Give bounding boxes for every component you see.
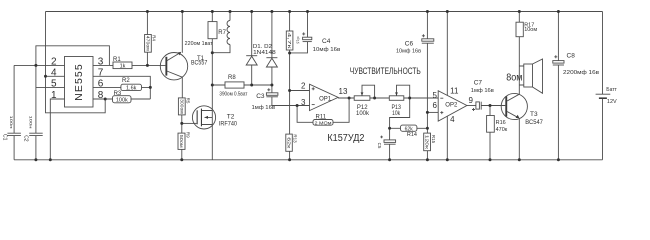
svg-text:10мф 16в: 10мф 16в	[396, 48, 421, 54]
svg-text:C3: C3	[256, 93, 265, 100]
svg-text:390ом 0.5ват: 390ом 0.5ват	[219, 91, 248, 97]
svg-text:IRF740: IRF740	[219, 121, 238, 128]
svg-text:6: 6	[433, 101, 438, 110]
svg-text:6: 6	[98, 79, 104, 90]
svg-text:1: 1	[51, 90, 57, 101]
svg-text:1б: 1б	[296, 40, 300, 44]
svg-text:T3: T3	[530, 111, 538, 118]
svg-text:3: 3	[301, 98, 306, 107]
svg-text:R15: R15	[431, 135, 436, 144]
svg-text:1N4148: 1N4148	[253, 50, 276, 56]
svg-text:100k: 100k	[116, 97, 128, 103]
svg-text:R13: R13	[292, 134, 297, 143]
svg-text:4,7к: 4,7к	[287, 33, 292, 49]
svg-text:4: 4	[450, 115, 455, 124]
svg-text:12V: 12V	[607, 99, 617, 105]
svg-text:R8: R8	[228, 75, 236, 81]
svg-text:OP2: OP2	[445, 103, 458, 109]
svg-text:R2: R2	[122, 78, 130, 84]
svg-text:К157УД2: К157УД2	[327, 133, 364, 144]
svg-text:Батт: Батт	[606, 87, 617, 93]
svg-text:С5: С5	[377, 143, 382, 149]
svg-text:62к: 62к	[287, 137, 292, 148]
svg-text:1мф 16в: 1мф 16в	[252, 105, 276, 111]
svg-text:R3: R3	[114, 91, 122, 97]
svg-text:10k: 10k	[392, 111, 401, 117]
svg-text:3: 3	[98, 57, 104, 68]
svg-text:470к: 470к	[496, 127, 508, 133]
svg-text:470ом: 470ом	[146, 36, 151, 51]
svg-text:R4: R4	[151, 35, 156, 41]
svg-text:C6: C6	[405, 41, 414, 48]
svg-text:100н: 100н	[29, 116, 34, 129]
svg-text:C8: C8	[567, 52, 576, 59]
svg-text:120к: 120к	[425, 135, 430, 149]
svg-text:R9: R9	[185, 132, 190, 138]
svg-text:C4: C4	[322, 38, 331, 45]
svg-text:100н: 100н	[9, 116, 14, 129]
svg-text:9: 9	[469, 96, 474, 105]
svg-text:8ом: 8ом	[506, 72, 522, 84]
svg-text:ЧУВСТВИТЕЛЬНОСТЬ: ЧУВСТВИТЕЛЬНОСТЬ	[350, 66, 421, 76]
svg-text:C7: C7	[474, 79, 483, 86]
svg-text:2 МОм: 2 МОм	[315, 120, 332, 126]
svg-text:R7: R7	[218, 30, 226, 36]
svg-text:R1: R1	[113, 57, 121, 63]
svg-text:100k: 100k	[356, 111, 370, 117]
svg-text:10ом: 10ом	[524, 27, 537, 33]
svg-text:4: 4	[51, 68, 57, 79]
svg-text:8: 8	[98, 90, 104, 101]
svg-text:11: 11	[450, 87, 459, 96]
svg-text:C1: C1	[2, 134, 8, 141]
svg-text:50ом: 50ом	[179, 135, 184, 148]
svg-text:7: 7	[98, 68, 104, 79]
svg-text:13: 13	[339, 87, 348, 96]
svg-text:NE555: NE555	[73, 63, 85, 101]
svg-text:2: 2	[51, 57, 57, 68]
svg-text:1k: 1k	[120, 64, 126, 70]
svg-text:10мф 16в: 10мф 16в	[313, 47, 341, 53]
svg-text:1мф 16в: 1мф 16в	[471, 88, 494, 94]
svg-text:300ом: 300ом	[180, 99, 185, 114]
svg-text:BC557: BC557	[191, 61, 208, 67]
svg-text:5: 5	[51, 79, 57, 90]
svg-text:R14: R14	[407, 132, 417, 138]
svg-text:2: 2	[301, 82, 306, 91]
svg-text:5: 5	[433, 91, 438, 100]
svg-text:R5: R5	[186, 98, 191, 104]
svg-text:R11: R11	[316, 115, 327, 121]
svg-text:T2: T2	[227, 114, 235, 121]
svg-text:C2: C2	[22, 135, 28, 142]
svg-text:220ом 1ват: 220ом 1ват	[185, 41, 214, 47]
svg-text:1.6k: 1.6k	[126, 86, 137, 92]
svg-text:BC547: BC547	[525, 120, 543, 126]
svg-text:2200мф 16в: 2200мф 16в	[563, 70, 599, 76]
svg-text:R16: R16	[496, 120, 506, 126]
svg-text:OP1: OP1	[319, 96, 332, 102]
